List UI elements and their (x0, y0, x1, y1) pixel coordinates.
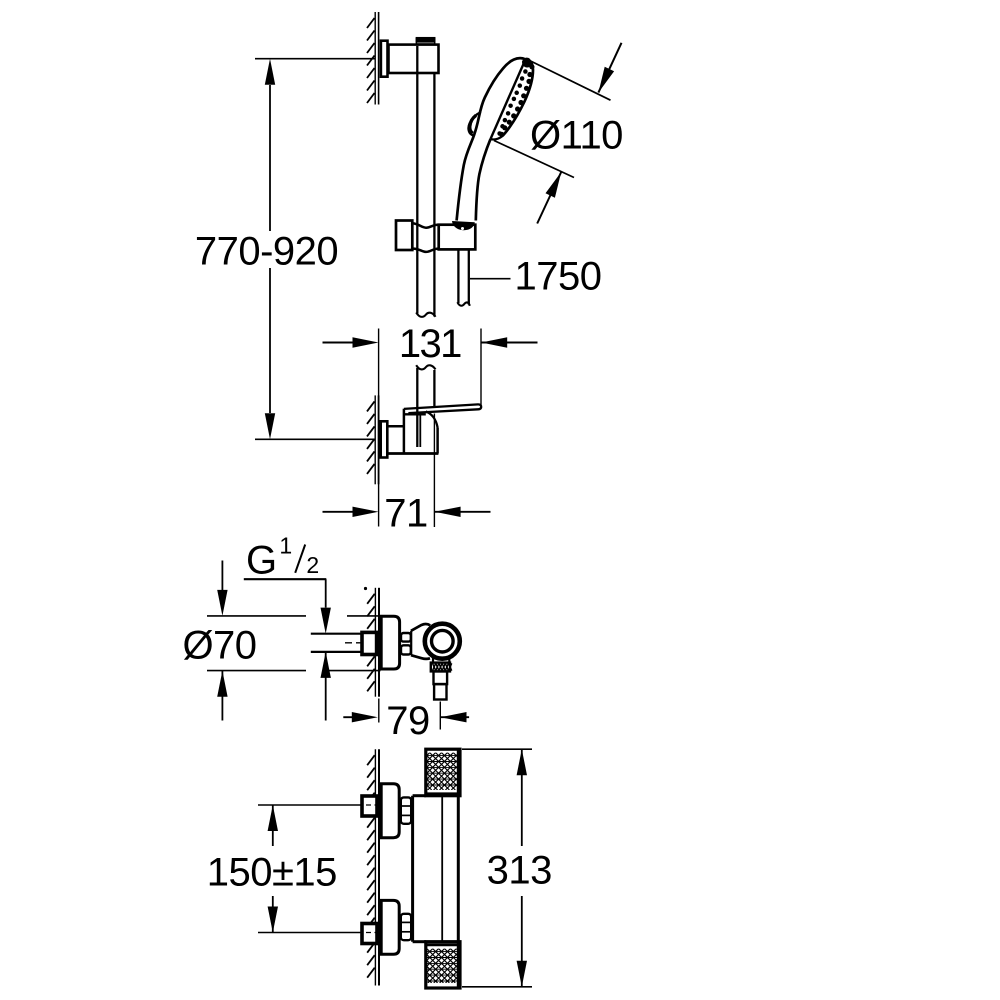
dimension 150±15 line and arrows (268, 805, 278, 933)
shower rail lower segment with break (416, 365, 435, 447)
hand shower head and handle (457, 58, 533, 220)
dimension Ø110 lower arrow (537, 172, 561, 224)
shower head top dark edge (522, 58, 531, 68)
valve outlet cylinder (434, 671, 448, 699)
valve outlet knurled nut (431, 663, 452, 672)
upper wall supply nut (362, 796, 378, 816)
thermostat body (413, 749, 459, 988)
shower handle tip in holder (dark) (452, 221, 475, 230)
bottom cap knurl pattern (357, 949, 532, 983)
dimension Ø110 upper arrow (598, 43, 621, 93)
rail lower bracket arm (387, 426, 438, 453)
svg-text:79: 79 (386, 699, 430, 743)
svg-text:71: 71 (384, 492, 428, 536)
label G 1/2 (246, 533, 319, 583)
valve outlet neck (433, 658, 449, 663)
dimension 770-920 line and arrows (265, 59, 275, 440)
supply pipe G 1/2 (311, 634, 362, 652)
lower supply center line (258, 932, 362, 934)
dimension text 71 (384, 492, 428, 536)
leader line 1750 (470, 278, 511, 280)
rail lower wall flange (381, 421, 388, 457)
upper S-union escutcheon (381, 784, 399, 838)
shower holder saddle over rail (412, 223, 438, 252)
wall of thermostat section (367, 749, 379, 985)
valve escutcheon flange Ø70 (381, 616, 399, 669)
upper supply center line (258, 804, 362, 806)
dimension text 131 (399, 322, 461, 366)
dimension 313 extension lines (462, 749, 532, 987)
shower holder left clamp block (396, 221, 412, 251)
dimension text 313 (487, 849, 552, 893)
dimension text 770-920 (195, 230, 338, 274)
lower wall supply nut (362, 924, 378, 944)
dimension text 1750 (515, 254, 602, 298)
wall top (rail upper mount wall) (367, 12, 379, 105)
dimension 131 right extension line (480, 329, 482, 407)
dimension 770-920 extension line bottom (255, 438, 375, 440)
tray bar (easy reach shelf) (404, 404, 481, 413)
valve body cone (411, 624, 430, 659)
svg-text:G: G (246, 539, 277, 583)
svg-text:150±15: 150±15 (207, 850, 337, 894)
thermostat bottom cap (knurled) (426, 942, 460, 988)
dimension text Ø110 (530, 114, 623, 158)
dimension text 150±15 (207, 850, 337, 894)
svg-text:1: 1 (279, 533, 291, 559)
pipe hex nut (362, 632, 377, 654)
dimension 131 line and arrows (323, 337, 538, 347)
svg-text:Ø110: Ø110 (530, 114, 623, 158)
wall of valve section (364, 587, 379, 697)
dimension 79 extension lines (379, 699, 441, 730)
valve head inner circle (432, 630, 454, 652)
dimension Ø70 extension lines (207, 616, 381, 671)
svg-text:131: 131 (399, 322, 461, 366)
rail bottom glide body (404, 409, 438, 454)
rail upper wall flange (381, 41, 388, 77)
shower handle control button (468, 112, 480, 135)
dimension 313 line and arrows (517, 749, 527, 987)
dimension 770-920 extension line top (255, 58, 375, 60)
pipe center line (dashed) (345, 642, 378, 644)
dimension Ø110 extension line lower (494, 141, 574, 178)
lower union nut (401, 914, 411, 940)
label G 1/2 underline and leader (244, 579, 331, 720)
thermostat top cap (knurled) (426, 749, 460, 796)
lower S-union escutcheon (381, 900, 399, 954)
svg-text:Ø70: Ø70 (182, 623, 256, 667)
dimension Ø110 extension line upper (527, 59, 611, 100)
upper union nut (401, 797, 411, 823)
dimension 71 right extension line (433, 414, 435, 528)
svg-text:2: 2 (306, 552, 318, 578)
dimension text 79 (386, 699, 430, 743)
svg-text:313: 313 (487, 849, 552, 893)
shower head spray nozzles (dotted band) (497, 63, 534, 137)
valve head outer circle (425, 624, 460, 659)
shower rail upper segment (416, 46, 435, 317)
shower hose with break (457, 249, 469, 305)
dimension 131 left extension line (wall face) (378, 329, 380, 527)
rail upper bracket (389, 45, 439, 73)
dimension 71 line and arrows (323, 507, 491, 517)
rail top cap (416, 38, 434, 45)
svg-text:770-920: 770-920 (195, 230, 338, 274)
dimension Ø70 arrows (217, 561, 227, 721)
dimension text Ø70 (182, 623, 256, 667)
wall of rail lower mount (367, 395, 379, 484)
dimension 79 line and arrows (343, 712, 469, 722)
top cap knurl pattern (351, 753, 538, 790)
valve union nut (401, 633, 411, 655)
shower holder right grip block (439, 225, 476, 250)
svg-text:1750: 1750 (515, 254, 602, 298)
